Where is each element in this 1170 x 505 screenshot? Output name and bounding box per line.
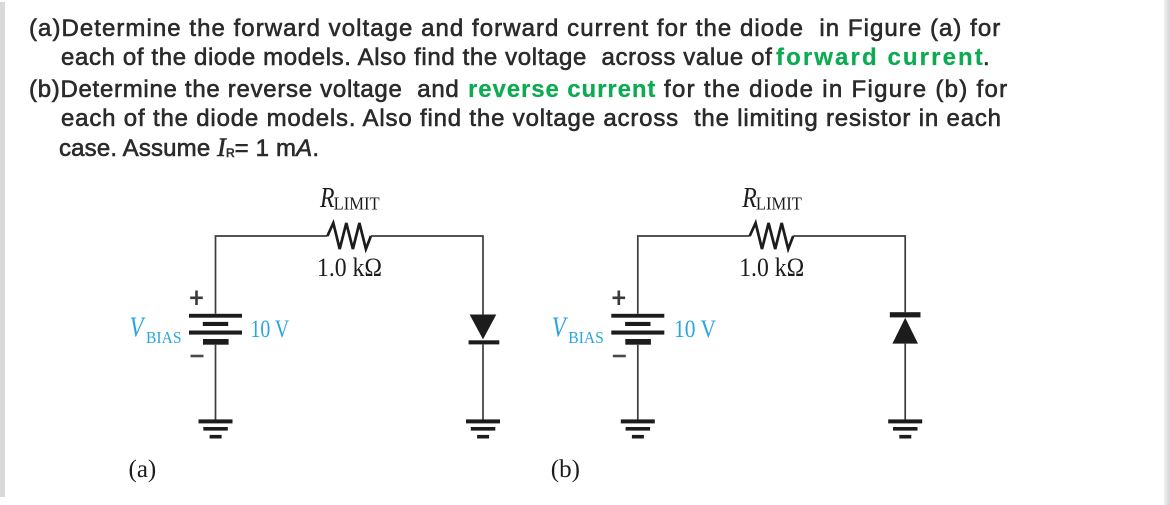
left page edge bbox=[0, 2, 5, 497]
wire: diode to ground (b) bbox=[904, 344, 906, 420]
problem statement line 1 bbox=[29, 15, 1001, 43]
label RLIMIT (a) bbox=[319, 182, 379, 214]
wire: battery top to resistor left (b) bbox=[638, 236, 750, 314]
svg-text:1.0 kΩ: 1.0 kΩ bbox=[739, 253, 804, 282]
right page edge bbox=[1164, 0, 1170, 505]
svg-text:10 V: 10 V bbox=[674, 316, 716, 343]
minus sign (a) bbox=[191, 355, 204, 358]
plus sign (b) bbox=[613, 291, 626, 306]
svg-text:LIMIT: LIMIT bbox=[334, 194, 380, 214]
svg-text:1.0 kΩ: 1.0 kΩ bbox=[317, 253, 382, 282]
problem statement line 2 bbox=[61, 44, 772, 72]
svg-text:LIMIT: LIMIT bbox=[756, 194, 802, 214]
wire: resistor right to diode top (b) bbox=[793, 236, 905, 312]
battery VBIAS (b) bbox=[611, 314, 664, 345]
svg-text:(a): (a) bbox=[129, 456, 157, 483]
svg-text:V: V bbox=[552, 313, 568, 344]
resistor RLIMIT (a) bbox=[327, 223, 371, 249]
svg-text:R: R bbox=[741, 182, 757, 214]
diode D2 (b) cathode-up bbox=[890, 312, 921, 343]
svg-text:10 V: 10 V bbox=[251, 316, 290, 343]
problem statement line 4 bbox=[61, 105, 1002, 133]
wire: resistor right to diode top (a) bbox=[371, 236, 483, 315]
svg-text:BIAS: BIAS bbox=[568, 328, 604, 347]
svg-text:R: R bbox=[319, 182, 335, 214]
wire: diode to ground (a) bbox=[482, 344, 484, 419]
problem statement line 5 bbox=[59, 133, 319, 163]
svg-text:BIAS: BIAS bbox=[146, 328, 182, 347]
wire: battery bottom to ground (a) bbox=[215, 345, 217, 420]
battery VBIAS (a) bbox=[189, 314, 242, 345]
ground below diode (b) bbox=[888, 419, 922, 438]
problem statement line 3 bbox=[29, 76, 459, 104]
wire: battery bottom to ground (b) bbox=[637, 345, 639, 420]
label RLIMIT (b) bbox=[741, 182, 801, 214]
ground below battery (b) bbox=[621, 419, 655, 438]
diode D1 (a) cathode-down bbox=[469, 315, 500, 345]
minus sign (b) bbox=[613, 355, 626, 358]
ground below diode (a) bbox=[466, 419, 500, 438]
plus sign (a) bbox=[190, 291, 203, 306]
wire: battery top to resistor left (a) bbox=[216, 236, 328, 314]
label VBIAS (b) bbox=[552, 313, 604, 348]
svg-text:V: V bbox=[130, 313, 146, 344]
resistor RLIMIT (b) bbox=[750, 223, 794, 249]
svg-text:(b): (b) bbox=[551, 456, 580, 483]
label VBIAS (a) bbox=[130, 313, 182, 348]
ground below battery (a) bbox=[199, 419, 233, 438]
